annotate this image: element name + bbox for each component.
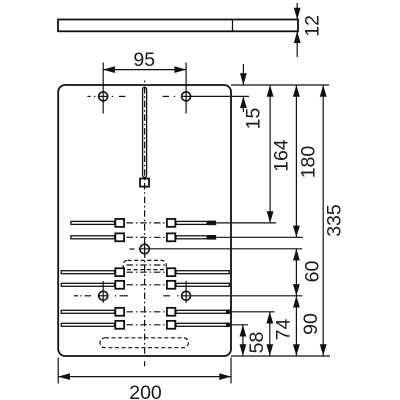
phantom capsule centerline [127, 264, 166, 266]
terminal row 2 left bar [71, 236, 115, 239]
terminal row 1 right lug [167, 219, 175, 227]
terminal row B right lug [167, 281, 175, 289]
terminal row A right bar [176, 271, 229, 274]
terminal row 1 right bar [176, 221, 207, 224]
dimension 15 lower arrow line [242, 96, 244, 112]
center slot end box [140, 179, 149, 187]
terminal row C black tip [226, 310, 230, 315]
dimension 335 arrow line [322, 85, 324, 356]
terminal row D right lug [167, 321, 175, 329]
top edge extension line (right) [231, 84, 329, 86]
terminal row D centerline [127, 324, 165, 326]
dimension 12 upper arrow line [296, 3, 298, 20]
vertical centerline [144, 87, 146, 356]
terminal row B centerline [127, 284, 165, 286]
lower hole right centerline dashes [163, 295, 178, 297]
terminal row D left lug [115, 321, 124, 329]
mounting hole top-right centerline and 15-dim boundary line [163, 95, 249, 97]
svg-text:200: 200 [129, 382, 162, 400]
lower hole right [182, 291, 191, 300]
center pivot hole left centerline dash [130, 248, 135, 250]
svg-text:180: 180 [298, 146, 320, 179]
svg-text:15: 15 [242, 108, 264, 130]
dimension 95 right extension line [185, 63, 187, 114]
dimension 90 arrow line [295, 296, 297, 356]
terminal row C left lug [115, 308, 124, 316]
terminal row D black tip [226, 323, 230, 328]
terminal row 2 right lug [167, 233, 175, 241]
center pivot hole vertical crosshair [144, 242, 146, 257]
svg-text:58: 58 [246, 332, 268, 354]
svg-text:95: 95 [133, 49, 155, 71]
dimension 12 lower arrow line [296, 31, 298, 57]
terminal row 1 left lug [115, 219, 124, 227]
phantom capsule (meter hanger outline) [123, 260, 166, 269]
terminal row 2 boundary line for dim 180 [216, 236, 303, 238]
center slot [143, 87, 147, 177]
terminal row B right bar [176, 283, 229, 286]
terminal row A left lug [115, 268, 124, 276]
dimension 164 arrow line [269, 85, 271, 223]
lower hole right crosshair vertical [185, 281, 187, 303]
terminal row C left bar [61, 310, 114, 313]
side view outline (12mm board thickness) [58, 20, 298, 32]
lower hole left crosshair vertical [102, 281, 104, 303]
terminal row 1 centerline [127, 222, 165, 224]
dimension 74 arrow line [269, 312, 271, 356]
terminal row B left lug [115, 281, 124, 289]
dimension 60 arrow line [295, 249, 297, 296]
terminal row 1 left bar [71, 221, 115, 224]
mounting hole top-left [99, 92, 108, 101]
dimension 95 left extension line [102, 63, 104, 114]
vertical centerline top dot [144, 81, 146, 83]
dimension 95 arrow line [103, 69, 186, 71]
mounting hole top-right [182, 92, 191, 101]
svg-text:90: 90 [300, 313, 322, 335]
mounting hole top-left centerline [87, 95, 125, 97]
dimension 200 left extension line [57, 358, 59, 384]
vertical centerline bottom dash [144, 361, 146, 366]
svg-text:60: 60 [301, 261, 323, 283]
dimension 200 arrow line [58, 376, 231, 378]
dimension 15 upper arrow line [242, 64, 244, 85]
svg-text:164: 164 [270, 139, 292, 172]
dimension 58 arrow line [242, 325, 244, 356]
phantom stadium slot (bottom) [100, 338, 188, 348]
terminal row C right bar [176, 310, 229, 313]
terminal row 1 black tip [207, 221, 216, 226]
terminal row C boundary line for dim 74 [230, 311, 275, 313]
dimension 180 arrow line [295, 85, 297, 237]
svg-text:74: 74 [273, 319, 295, 341]
terminal row D left bar [61, 323, 114, 326]
terminal row A right lug [167, 268, 175, 276]
terminal row 2 left lug [115, 233, 124, 241]
terminal row D right bar [176, 323, 229, 326]
terminal row 1 boundary line for dim 164 [216, 222, 276, 224]
dimension 200 right extension line [230, 358, 232, 384]
svg-text:335: 335 [324, 204, 346, 237]
terminal row 2 black tip [207, 235, 216, 240]
terminal row A centerline [127, 271, 165, 273]
terminal row A left bar [61, 271, 114, 274]
terminal row C centerline [127, 311, 165, 313]
center pivot boundary line for dim 60 [139, 248, 303, 250]
center pivot hole [140, 244, 149, 253]
lower hole left [99, 291, 108, 300]
lower hole right boundary line for dim 90 [181, 295, 302, 297]
terminal row B left bar [61, 283, 114, 286]
svg-text:12: 12 [302, 15, 324, 37]
terminal row D boundary line for dim 58 [230, 324, 248, 326]
front view plate outline [58, 85, 231, 356]
terminal row C right lug [167, 308, 175, 316]
side view divider line [232, 20, 234, 32]
lower hole left centerline [74, 295, 128, 297]
terminal row 2 centerline [127, 236, 165, 238]
bottom edge extension line (right) [231, 355, 330, 357]
terminal row 2 right bar [176, 236, 207, 239]
